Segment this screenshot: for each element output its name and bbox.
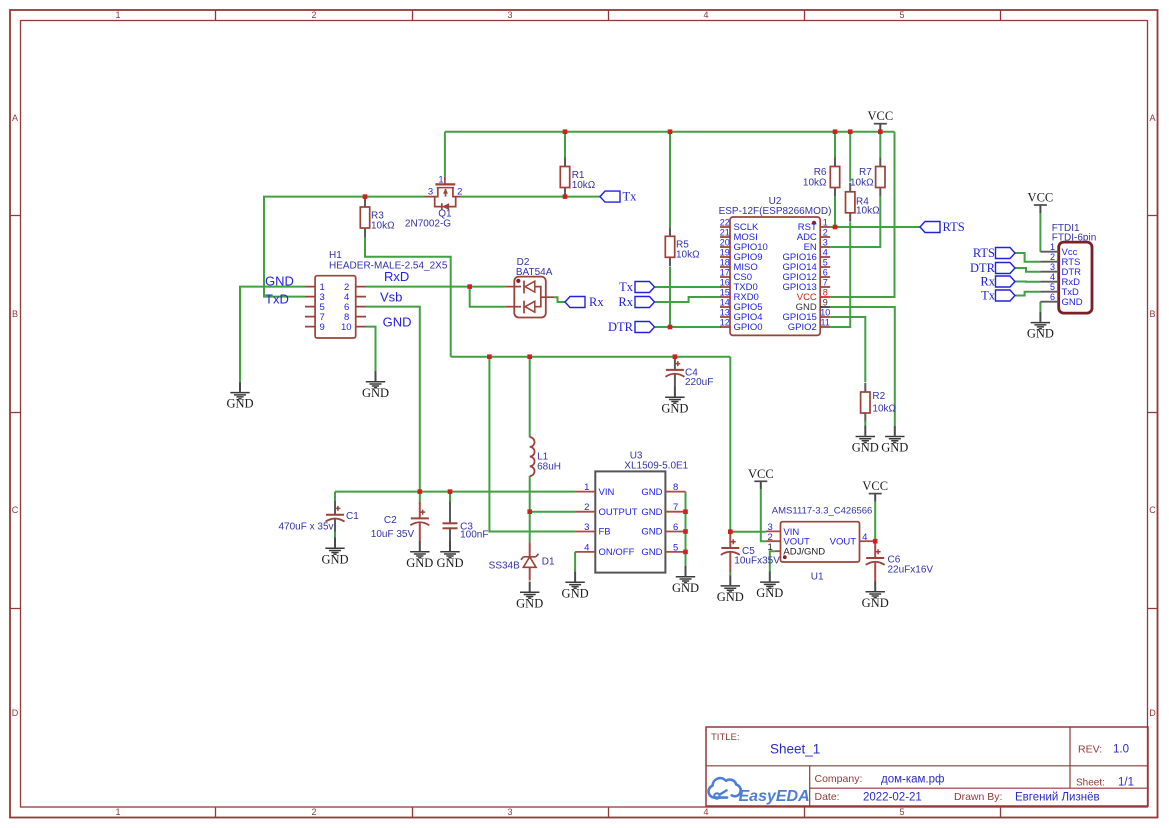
port flag Tx (top)	[600, 191, 620, 202]
svg-text:Rx: Rx	[618, 295, 633, 309]
svg-text:GPIO0: GPIO0	[734, 322, 763, 333]
svg-text:5: 5	[823, 258, 828, 268]
svg-text:H1: H1	[329, 250, 342, 261]
power VCC (FTDI)	[1028, 191, 1054, 214]
wire bus to R6	[834, 132, 836, 158]
ground (FTDI pin6)	[1027, 312, 1054, 341]
wire VCC drop to ESP pin8	[830, 132, 894, 297]
svg-text:6: 6	[823, 268, 828, 278]
wire C5 junction to VIN pin	[730, 531, 766, 533]
wire DTR flag to ESP GPIO0	[655, 326, 721, 328]
ground (C4)	[661, 387, 688, 416]
svg-text:Date:: Date:	[815, 791, 840, 803]
wire H1 pin2 RxD to D2	[366, 287, 505, 307]
wire RTS flag to FTDI pin2	[1015, 253, 1040, 262]
svg-text:R7: R7	[859, 167, 872, 178]
power VCC (U1 VOUT)	[748, 467, 774, 490]
wire R5 bottom to DTR junction	[669, 267, 671, 327]
port flag DTR (ESP)	[635, 322, 655, 333]
svg-text:8: 8	[673, 482, 678, 493]
wire ESP RST to RTS flag	[830, 226, 920, 228]
svg-text:D: D	[12, 708, 19, 718]
svg-text:DTR: DTR	[608, 320, 634, 334]
wire DTR flag to FTDI pin3	[1015, 268, 1040, 272]
svg-text:R2: R2	[872, 391, 885, 402]
resistor R5	[665, 227, 674, 266]
svg-text:1: 1	[823, 218, 828, 228]
ground (C2)	[406, 541, 433, 570]
svg-text:REV:: REV:	[1078, 744, 1102, 756]
port flag DTR (FTDI)	[996, 263, 1016, 274]
capacitor C6	[874, 544, 876, 559]
wire lower bus	[451, 356, 731, 358]
diode D1 SS34B	[529, 542, 531, 556]
svg-text:3: 3	[507, 807, 512, 817]
svg-text:GND: GND	[383, 315, 412, 330]
svg-text:2N7002-G: 2N7002-G	[405, 218, 451, 229]
wire bus to R5	[669, 132, 671, 228]
svg-text:4: 4	[584, 542, 589, 553]
svg-text:14: 14	[720, 298, 730, 308]
svg-text:1: 1	[438, 175, 443, 185]
wire VCC top bus	[445, 131, 895, 133]
wire R3 bottom to lower bus	[365, 237, 451, 357]
ground (C1)	[321, 538, 348, 567]
svg-text:A: A	[12, 113, 18, 123]
wire VCC to U1 VOUT pin2	[761, 489, 766, 541]
svg-text:VOUT: VOUT	[830, 537, 857, 548]
wire ON/OFF to GND	[574, 552, 576, 572]
border right ticks	[1148, 216, 1158, 609]
wire ESP GPIO15 to R2	[830, 317, 865, 382]
svg-text:1: 1	[768, 542, 773, 553]
wire U3 right GND rail	[685, 492, 687, 566]
svg-text:3: 3	[584, 522, 589, 533]
wire Q1 pin2 to Tx flag	[461, 196, 600, 198]
port flag Tx (ESP)	[635, 282, 655, 293]
svg-text:2: 2	[823, 228, 828, 238]
svg-text:C: C	[12, 505, 19, 515]
svg-text:5: 5	[899, 10, 904, 20]
ground (U1 ADJ)	[756, 571, 783, 600]
svg-text:EasyEDA: EasyEDA	[739, 788, 810, 805]
wire H1 pin10 to GND	[366, 327, 376, 371]
ground (C5)	[717, 575, 744, 604]
svg-text:GND: GND	[1062, 297, 1083, 308]
svg-text:ADJ/GND: ADJ/GND	[783, 547, 825, 558]
svg-text:GND: GND	[641, 547, 662, 558]
svg-text:13: 13	[720, 308, 730, 318]
svg-text:4: 4	[703, 10, 708, 20]
svg-text:21: 21	[720, 228, 730, 238]
wire C3 drop	[449, 492, 451, 502]
svg-text:GND: GND	[641, 487, 662, 498]
svg-text:ON/OFF: ON/OFF	[599, 547, 635, 558]
wire Rx flag to ESP RXD0	[655, 297, 721, 302]
wire VOUT junction	[874, 540, 875, 542]
wire bus corner down to VIN junction	[729, 357, 731, 532]
svg-text:2: 2	[457, 187, 462, 198]
svg-text:10uF 35V: 10uF 35V	[371, 529, 415, 540]
svg-text:FTDI-6pin: FTDI-6pin	[1052, 233, 1096, 244]
svg-text:3: 3	[428, 187, 433, 198]
svg-text:3: 3	[507, 10, 512, 20]
svg-text:10uFx35V: 10uFx35V	[734, 555, 780, 566]
svg-text:19: 19	[720, 248, 730, 258]
wire R6 bottom to RST	[834, 197, 836, 227]
wire Rx flag to FTDI pin4	[1015, 281, 1040, 283]
svg-text:C1: C1	[346, 511, 359, 522]
resistor R6	[830, 158, 839, 197]
svg-text:Rx: Rx	[980, 275, 995, 289]
border top ticks	[216, 10, 1001, 21]
svg-text:RTS: RTS	[943, 220, 965, 234]
svg-text:4: 4	[823, 248, 828, 258]
svg-text:Tx: Tx	[981, 289, 996, 303]
svg-text:1.0: 1.0	[1113, 744, 1129, 756]
IC U3 XL1509-5.0E1	[595, 471, 665, 572]
svg-text:VIN: VIN	[599, 487, 615, 498]
wire bus to R4	[849, 132, 851, 182]
resistor R1	[560, 158, 569, 197]
svg-text:6: 6	[1050, 292, 1055, 302]
port flag Tx (FTDI)	[996, 290, 1016, 301]
svg-text:2: 2	[1050, 252, 1055, 262]
svg-text:22uFx16V: 22uFx16V	[888, 564, 934, 575]
svg-text:470uF x 35v: 470uF x 35v	[279, 521, 334, 532]
svg-text:220uF: 220uF	[685, 377, 713, 388]
svg-text:7: 7	[673, 502, 678, 513]
svg-text:GND: GND	[641, 527, 662, 538]
svg-text:RTS: RTS	[973, 246, 995, 260]
svg-text:Rx: Rx	[589, 295, 604, 309]
wire C1 drop	[334, 492, 336, 504]
svg-text:10kΩ: 10kΩ	[803, 178, 827, 189]
capacitor C2	[419, 502, 421, 518]
wire OUTPUT row	[530, 511, 575, 513]
svg-text:5: 5	[673, 542, 678, 553]
wire Q1 pin3 to H1 pin3 TxD	[264, 197, 425, 297]
capacitor C4	[674, 359, 676, 370]
svg-text:1: 1	[115, 807, 120, 817]
capacitor C5	[729, 534, 731, 549]
svg-text:GPIO2: GPIO2	[788, 322, 817, 333]
svg-text:дом-кам.рф: дом-кам.рф	[881, 774, 944, 786]
svg-text:R6: R6	[814, 167, 827, 178]
port flag Rx (FTDI)	[996, 276, 1016, 287]
svg-text:8: 8	[823, 288, 828, 298]
svg-text:SS34B: SS34B	[489, 561, 520, 572]
svg-text:18: 18	[720, 258, 730, 268]
port flag Rx (D2)	[565, 297, 585, 308]
svg-text:GND: GND	[641, 507, 662, 518]
svg-text:2: 2	[311, 807, 316, 817]
ground (H1 pin1 net)	[226, 382, 253, 411]
wire R4 down to ESP GPIO2	[830, 222, 850, 327]
svg-text:Drawn By:: Drawn By:	[954, 791, 1002, 803]
svg-text:12: 12	[720, 318, 730, 328]
svg-text:D: D	[1149, 708, 1156, 718]
svg-text:1: 1	[115, 10, 120, 20]
wire L1 to OUTPUT junction and D1	[529, 476, 531, 542]
svg-text:GND: GND	[796, 302, 817, 313]
svg-text:GND: GND	[265, 274, 294, 289]
svg-text:10kΩ: 10kΩ	[371, 221, 395, 232]
wire bus to Q1 pin1	[444, 132, 446, 177]
wire D2 out to Rx flag	[554, 297, 565, 302]
connector FTDI1 FTDI-6pin	[1059, 242, 1092, 313]
svg-text:Sheet_1: Sheet_1	[770, 742, 820, 757]
ground (U3 right)	[672, 566, 699, 595]
svg-text:1/1: 1/1	[1118, 777, 1134, 789]
svg-text:100nF: 100nF	[460, 530, 488, 541]
inductor L1	[530, 437, 535, 476]
ground (ESP pin9)	[881, 426, 908, 455]
power VCC (top bus)	[867, 109, 893, 132]
svg-text:DTR: DTR	[970, 261, 996, 275]
svg-text:20: 20	[720, 238, 730, 248]
svg-text:3: 3	[823, 238, 828, 248]
svg-text:2022-02-21: 2022-02-21	[863, 792, 922, 804]
svg-text:U1: U1	[811, 572, 824, 583]
svg-text:3: 3	[1050, 262, 1055, 272]
svg-text:C: C	[1149, 505, 1156, 515]
svg-text:C2: C2	[384, 515, 397, 526]
svg-text:9: 9	[823, 298, 828, 308]
border bottom ticks	[216, 807, 1001, 818]
svg-text:10kΩ: 10kΩ	[676, 249, 700, 260]
wire bus to R7	[879, 132, 881, 158]
svg-text:FB: FB	[599, 527, 611, 538]
svg-text:5: 5	[899, 807, 904, 817]
ground (H1 pin10 net)	[362, 371, 389, 400]
wire VCC right to VOUT junction	[874, 502, 876, 542]
wire bus to L1	[529, 357, 531, 438]
svg-text:11: 11	[821, 318, 830, 328]
svg-text:10kΩ: 10kΩ	[856, 206, 880, 217]
svg-text:15: 15	[720, 288, 730, 298]
svg-text:10kΩ: 10kΩ	[850, 178, 874, 189]
svg-text:2: 2	[311, 10, 316, 20]
svg-text:B: B	[12, 309, 18, 319]
svg-text:4: 4	[703, 807, 708, 817]
svg-text:A: A	[1149, 113, 1155, 123]
junction dots	[563, 129, 568, 134]
ground (D1)	[516, 582, 543, 611]
transistor Q1 2N7002-G	[425, 177, 461, 210]
svg-text:22: 22	[720, 218, 730, 228]
svg-text:AMS1117-3.3_C426566: AMS1117-3.3_C426566	[772, 506, 873, 517]
svg-text:9: 9	[320, 322, 325, 333]
svg-text:Tx: Tx	[623, 189, 638, 203]
wire VIN row	[335, 491, 575, 493]
svg-text:1: 1	[584, 482, 589, 493]
EasyEDA logo	[709, 778, 741, 799]
wire FB loop	[489, 357, 575, 532]
wire H1 pin1 to GND	[240, 287, 305, 382]
wire ESP pin9 GND	[830, 307, 895, 426]
port flag RTS (ESP)	[920, 222, 940, 233]
svg-text:D1: D1	[542, 557, 555, 568]
svg-text:16: 16	[720, 278, 730, 288]
wire C2 drop	[419, 492, 421, 504]
wire Tx flag to ESP TXD0	[655, 286, 721, 288]
title block grid	[706, 727, 1148, 806]
power VCC (C6)	[862, 479, 888, 502]
ground (U3 ON/OFF)	[562, 572, 589, 601]
wire ESP EN to R7	[830, 197, 880, 247]
svg-text:Company:: Company:	[815, 773, 863, 785]
wire C4 junction (stub)	[674, 357, 676, 360]
svg-text:7: 7	[823, 278, 828, 288]
svg-text:B: B	[1149, 309, 1155, 319]
port flag RTS (FTDI)	[996, 248, 1016, 259]
capacitor C3	[449, 502, 451, 524]
port flag Rx (ESP)	[635, 297, 655, 308]
resistor R2	[861, 383, 870, 422]
svg-text:17: 17	[720, 268, 730, 278]
border left ticks	[10, 216, 21, 609]
wire Tx flag to FTDI pin5	[1015, 292, 1040, 296]
wire bus to R1	[564, 132, 566, 158]
wire U1 ADJ/GND to GND	[770, 551, 775, 571]
svg-text:TxD: TxD	[265, 292, 289, 307]
svg-text:4: 4	[1050, 272, 1055, 282]
svg-text:Tx: Tx	[619, 280, 634, 294]
resistor R7	[876, 158, 885, 197]
ground (R2)	[852, 426, 879, 455]
svg-text:2: 2	[584, 502, 589, 513]
ground (C3)	[436, 541, 463, 570]
wire FTDI VCC to pin1	[1039, 213, 1041, 252]
svg-text:BAT54A: BAT54A	[516, 267, 553, 278]
wire H1 pin6 Vsb rail	[366, 307, 420, 492]
svg-text:Sheet:: Sheet:	[1076, 778, 1105, 789]
svg-text:10kΩ: 10kΩ	[572, 180, 596, 191]
svg-text:4: 4	[862, 532, 867, 543]
wire FTDI pin6 to GND	[1039, 302, 1041, 312]
svg-text:6: 6	[673, 522, 678, 533]
ground (C6)	[862, 581, 889, 610]
svg-text:5: 5	[1050, 282, 1055, 292]
svg-text:ESP-12F(ESP8266MOD): ESP-12F(ESP8266MOD)	[719, 206, 832, 217]
svg-text:Vsb: Vsb	[380, 290, 402, 305]
svg-text:Евгений Лизнёв: Евгений Лизнёв	[1015, 792, 1100, 804]
svg-text:XL1509-5.0E1: XL1509-5.0E1	[624, 460, 688, 471]
diode D2 BAT54A	[505, 277, 554, 318]
svg-text:TITLE:: TITLE:	[711, 732, 740, 743]
svg-text:10kΩ: 10kΩ	[872, 404, 896, 415]
svg-text:RxD: RxD	[384, 269, 409, 284]
resistor R4	[846, 183, 855, 222]
svg-text:OUTPUT: OUTPUT	[599, 507, 638, 518]
svg-text:68uH: 68uH	[537, 462, 561, 473]
capacitor C1	[334, 501, 336, 515]
resistor R3	[360, 198, 369, 237]
IC U1 AMS1117-3.3_C426566	[781, 522, 860, 562]
IC U2 ESP-12F(ESP8266MOD)	[730, 217, 820, 335]
svg-text:10: 10	[820, 308, 830, 318]
svg-text:10: 10	[341, 322, 352, 333]
connector H1 HEADER-MALE-2.54_2X5	[305, 276, 366, 338]
